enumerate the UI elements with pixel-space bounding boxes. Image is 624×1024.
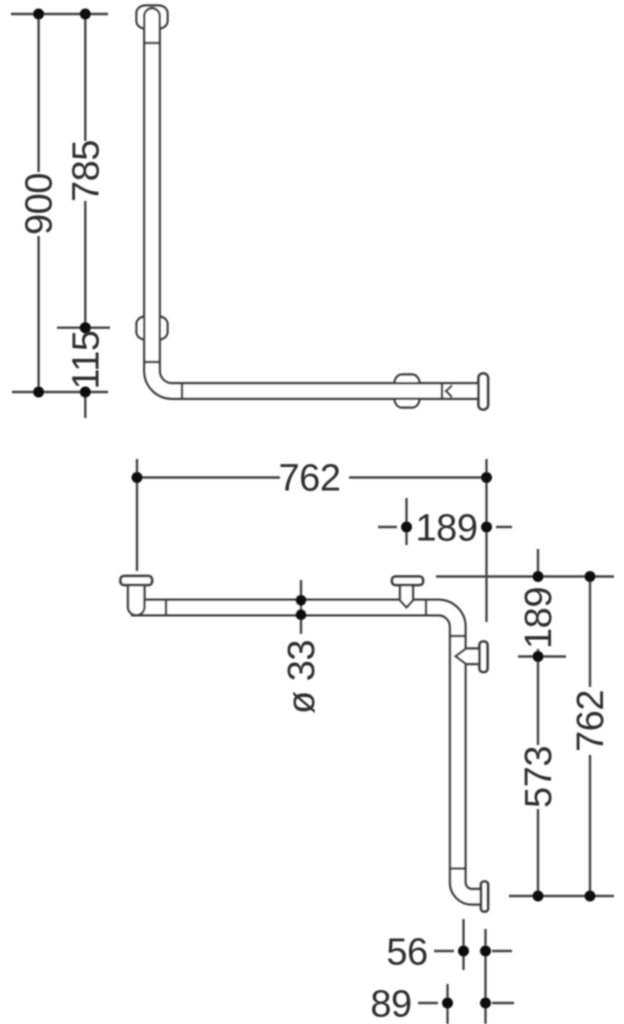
bottom wall flange [481, 882, 488, 912]
dimension dots top view [33, 9, 91, 398]
svg-text:89: 89 [370, 984, 411, 1024]
svg-text:762: 762 [570, 690, 612, 752]
joint line after elbow [181, 383, 183, 399]
dots diameter [296, 595, 307, 620]
dim 89: line [418, 1002, 514, 1004]
joint line below right elbow [450, 635, 466, 637]
mount 1 stem [128, 585, 145, 616]
joint line above bottom elbow [450, 867, 466, 869]
dimension extension line top [11, 13, 108, 15]
snap connector mark [446, 386, 452, 398]
wall rose on horizontal run [395, 375, 420, 408]
extension line wall top right [436, 575, 614, 577]
joint line before right elbow [425, 600, 427, 616]
dim dots 56/89 [442, 946, 491, 1009]
dim 189 horizontal: line [378, 526, 512, 528]
svg-text:56: 56 [386, 932, 427, 974]
wall flange (side view end) [479, 374, 489, 410]
dimension line 785 [84, 14, 86, 328]
joint line below top rose [144, 42, 160, 44]
svg-text:ø 33: ø 33 [281, 640, 323, 714]
dim dots bottom view [132, 472, 596, 902]
dim diameter 33: line [300, 580, 302, 634]
svg-text:189: 189 [416, 508, 478, 550]
bottom extension tick right [509, 895, 614, 897]
svg-text:785: 785 [65, 140, 107, 202]
dim 189 vertical: stub above [537, 549, 539, 577]
svg-text:189: 189 [518, 587, 560, 649]
grab bar tube (front view, L-shape) [132, 600, 481, 905]
wall rose top [137, 6, 168, 29]
mount 2 stem [400, 585, 413, 608]
joint line above elbow [144, 361, 160, 363]
dim 189 horizontal: stub [405, 498, 407, 545]
svg-text:762: 762 [279, 458, 341, 500]
extension tick mid [57, 327, 110, 329]
wall rose mid [137, 317, 168, 340]
mount 1 flange [121, 576, 153, 585]
dim 56: line [434, 950, 512, 952]
joint line near left mount [165, 600, 167, 616]
side mount stem [456, 649, 481, 665]
svg-text:573: 573 [518, 746, 560, 808]
dim 56: extension lines [464, 919, 486, 1024]
dim 189 vertical: line [537, 649, 539, 657]
svg-text:115: 115 [65, 330, 107, 389]
grab bar tube (side view) [144, 8, 479, 398]
dim 762 right: line [589, 577, 591, 897]
dimension line 900 [37, 14, 39, 392]
side mount flange [480, 642, 488, 673]
dim 573: line [537, 657, 539, 897]
dim 762 top: extension right [485, 459, 487, 622]
dim 762 top: extension left [136, 459, 138, 571]
joint line before wall flange [441, 383, 443, 399]
dimension line 115 [84, 388, 86, 418]
mount 2 flange [392, 577, 423, 586]
extension tick bottom [12, 391, 108, 393]
dim 89: extension line [446, 984, 448, 1024]
dim 762 top: line [137, 476, 487, 478]
svg-text:900: 900 [19, 173, 61, 235]
tick 189 vertical bottom [518, 655, 566, 657]
